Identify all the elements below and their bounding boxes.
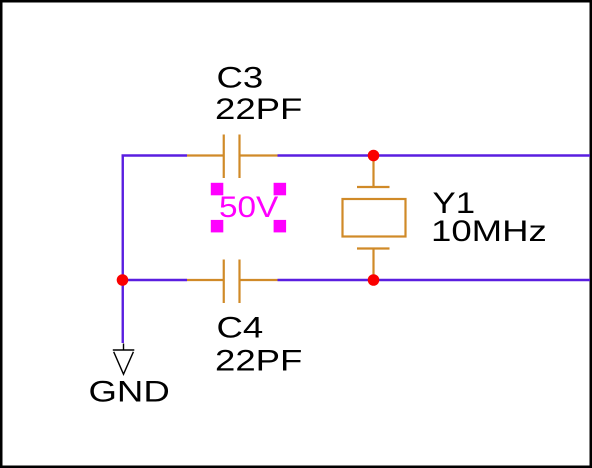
wire: bottom rail left segment	[122, 279, 188, 281]
capacitor C3	[187, 135, 278, 179]
svg-text:10MHz: 10MHz	[431, 215, 547, 248]
wire: top rail right segment to border	[278, 154, 591, 156]
selection handles around 50V	[211, 183, 286, 233]
junction node: bottom rail / GND branch	[117, 274, 129, 286]
junction node: bottom rail / crystal	[368, 274, 380, 286]
ground GND symbol	[113, 344, 135, 375]
wire: left vertical from top rail down past node to GND	[122, 156, 124, 344]
capacitor C4	[187, 260, 278, 304]
wire: bottom rail right segment to border	[278, 279, 591, 281]
svg-text:50V: 50V	[219, 191, 278, 224]
svg-text:22PF: 22PF	[215, 93, 302, 126]
svg-text:22PF: 22PF	[215, 345, 302, 378]
svg-text:GND: GND	[89, 376, 170, 409]
svg-text:C3: C3	[217, 62, 264, 95]
svg-text:C4: C4	[217, 312, 264, 345]
junction node: top rail / crystal	[368, 150, 380, 162]
wire: top rail left segment	[122, 154, 188, 156]
crystal Y1	[343, 156, 406, 280]
